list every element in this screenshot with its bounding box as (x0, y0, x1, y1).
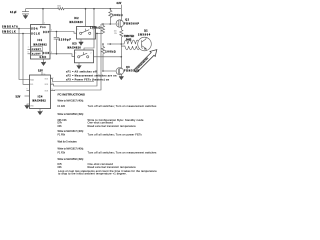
svg-text:0.1 µF: 0.1 µF (10, 12, 17, 14)
svg-text:09h C0h: 09h C0h (58, 119, 68, 122)
svg-text:GND: GND (40, 57, 47, 59)
wire control NO1 from IC4 (51, 79, 95, 82)
IC1 MAX6692 temp sensor (31, 25, 51, 60)
svg-text:DXN: DXN (43, 53, 50, 55)
I2C instructions text (58, 92, 158, 175)
svg-text:3.3V: 3.3V (16, 96, 21, 98)
svg-text:FDN335N: FDN335N (124, 70, 140, 73)
node 3.3V left of IC4 (16, 96, 30, 98)
wire IC2 supply from rail (83, 9, 89, 27)
svg-text:Write to MAX1617 (40h):: Write to MAX1617 (40h): (58, 148, 85, 151)
ground IC1 (41, 62, 46, 65)
ground below C1 (23, 16, 28, 19)
svg-text:100kΩ: 100kΩ (112, 14, 123, 17)
capacitor C1 0.1uF (10, 9, 29, 16)
svg-text:Write to MAX4562 (49h):: Write to MAX4562 (49h): (58, 158, 85, 161)
svg-text:xF2 = Measurement switches are: xF2 = Measurement switches are on (66, 74, 117, 77)
svg-text:Q2: Q2 (125, 20, 129, 22)
wire GND pin of IC1 (41, 59, 47, 62)
svg-text:2200pF: 2200pF (59, 38, 72, 41)
svg-text:F1 F0h: F1 F0h (58, 133, 66, 136)
ground Q3 source (119, 77, 124, 80)
ground IC4 left (25, 106, 30, 109)
svg-text:xF1 = All switches off: xF1 = All switches off (66, 71, 97, 74)
node SMBCLK (2, 31, 31, 34)
resistor R4 100k (101, 44, 116, 71)
svg-text:Write to MAX1617 (40h):: Write to MAX1617 (40h): (58, 130, 85, 133)
svg-text:D7h: D7h (58, 163, 63, 166)
transistor Q2 FDN360P P-FET (116, 9, 140, 30)
pin ALERT stub (28, 51, 31, 57)
resistor R1 100k (90, 24, 105, 33)
svg-text:I²C INSTRUCTIONS: I²C INSTRUCTIONS (58, 92, 85, 96)
node 3.3V top right (117, 3, 122, 8)
transistor Q1 2N3904 remote sensor (138, 31, 152, 51)
wire IC4 gnd left (27, 104, 30, 106)
wire IC2 output to R1 (99, 30, 103, 36)
svg-text:DXP: DXP (43, 32, 50, 34)
svg-text:TWISTED: TWISTED (124, 36, 135, 38)
pin stub IC4 left mid (27, 88, 30, 94)
ground IC4 bottom (38, 112, 43, 115)
wire control NO3 from IC4 to Q2 gate (51, 24, 102, 91)
transistor Q3 FDN335N N-FET (116, 67, 140, 77)
twisted pair conductors (121, 40, 142, 45)
wire VDD stub (40, 9, 46, 25)
svg-text:0Fh: 0Fh (58, 125, 63, 128)
thermometer graphic (134, 50, 156, 72)
svg-text:F1 F2h: F1 F2h (58, 152, 66, 155)
svg-text:IC3: IC3 (72, 44, 77, 46)
wire IC4 bottom pin (37, 109, 43, 112)
capacitor C2 2200pF (54, 32, 72, 54)
wire DXP node (50, 32, 77, 34)
svg-text:VDD: VDD (40, 27, 46, 29)
svg-text:3.3V: 3.3V (38, 70, 43, 72)
ground IC2 (79, 39, 84, 45)
svg-text:3.3V: 3.3V (117, 3, 122, 5)
resistor R2 100k pullup (109, 9, 124, 24)
pin OVERT stub (28, 46, 31, 52)
svg-text:Q3: Q3 (126, 67, 130, 69)
wire Q2 gate line (101, 21, 117, 27)
wire Q3 gate line (103, 68, 116, 74)
svg-text:OVERT: OVERT (32, 49, 42, 51)
svg-text:Wait for 5 minutes: Wait for 5 minutes (58, 140, 78, 143)
svg-text:2N3904: 2N3904 (138, 34, 151, 37)
resistor R3 100 2W heater (114, 29, 123, 37)
svg-text:0Fh: 0Fh (58, 166, 63, 169)
IC3 MAX4626 analog switch (68, 44, 100, 63)
svg-text:IC2: IC2 (74, 18, 79, 20)
svg-text:SCLK: SCLK (31, 34, 40, 36)
IC2 MAX4626 analog switch (70, 18, 100, 39)
wire IC3 output to twisted pair (99, 54, 121, 60)
node junction dots on rail (42, 8, 44, 10)
legend (66, 71, 117, 82)
wire heater node (118, 38, 124, 68)
svg-text:IC1: IC1 (38, 40, 43, 42)
svg-text:Write to MAX1617 (40h):: Write to MAX1617 (40h): (58, 100, 85, 103)
wire SMBCLK down to IC4 (23, 34, 30, 85)
svg-text:Q1: Q1 (144, 31, 148, 33)
wire IC3 control from IC4 via x94 (84, 9, 94, 50)
svg-text:FDN360P: FDN360P (124, 22, 140, 25)
svg-text:xF3 = Power FETs (heaters) on: xF3 = Power FETs (heaters) on (66, 78, 110, 81)
svg-text:D7h: D7h (58, 122, 63, 125)
wire DXN node (50, 54, 75, 57)
svg-text:F1 F2h: F1 F2h (58, 105, 66, 108)
wire control NO2 from IC4 (51, 33, 98, 86)
ground IC3 (77, 63, 82, 69)
svg-text:100kΩ: 100kΩ (90, 27, 101, 30)
IC4 MAX4562 (30, 70, 54, 108)
svg-text:Write to MAX4562 (49h):: Write to MAX4562 (49h): (58, 113, 85, 116)
wire SMBDATA down to IC4 (19, 29, 30, 80)
svg-text:100kΩ: 100kΩ (105, 50, 116, 53)
node SMBDATA (2, 25, 31, 29)
wire top supply rail (26, 6, 122, 12)
resistor R5 100 ohm (series, top) (57, 6, 64, 10)
svg-text:SMBCLK: SMBCLK (2, 31, 16, 33)
